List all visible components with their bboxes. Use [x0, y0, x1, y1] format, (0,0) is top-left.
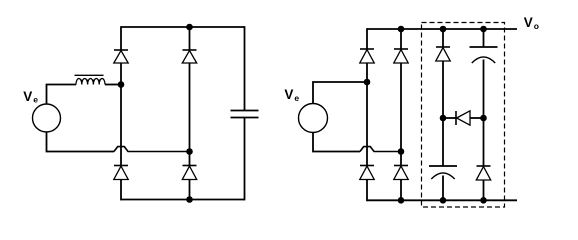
- wire: left top rail: [121, 26, 245, 28]
- diode D9 (box, top-left): [436, 47, 450, 61]
- svg-text:e: e: [294, 93, 299, 103]
- capacitor C3 (box, top-right, polarized): [470, 47, 498, 63]
- wire: middle diode right lead: [470, 117, 484, 119]
- diode D6 (right bridge, bottom-left): [360, 166, 374, 180]
- junction dot (top rail / branch 2): [398, 26, 405, 33]
- diode D4 (left bridge, bottom-right): [182, 166, 196, 180]
- capacitor C1: [231, 111, 259, 118]
- wire: branch 2 middle segment: [400, 63, 402, 166]
- svg-text:e: e: [33, 95, 38, 105]
- wire: source V1 top lead: [47, 85, 77, 105]
- inductor L1: [76, 78, 105, 84]
- wire: branch 2 upper segment: [400, 29, 402, 49]
- inductor L1 core line: [75, 74, 104, 76]
- junction dot (bottom rail / branch 4): [480, 197, 487, 204]
- diode D11 (box, middle, pointing left): [456, 111, 470, 125]
- diode D3 (left bridge, top-right): [182, 50, 196, 63]
- wire: branch B middle segment: [189, 63, 191, 166]
- wire: source V2 bottom lead: [313, 133, 360, 152]
- wire hop over branch 1: [360, 147, 401, 152]
- wire: branch 3 lower segment: [442, 176, 444, 201]
- wire: branch 3 middle segment: [442, 61, 444, 166]
- wire: source V2 top lead: [313, 82, 367, 104]
- junction dot (inductor / branch A): [118, 81, 125, 88]
- diode D5 (right bridge, top-left): [360, 49, 374, 63]
- junction dot (top rail / branch 4): [480, 26, 487, 33]
- wire: right branch upper (to capacitor): [244, 26, 246, 110]
- dashed box: [422, 23, 505, 208]
- junction dot (middle diode / branch 3): [440, 115, 447, 122]
- capacitor C2 (box, bottom-left, polarized): [429, 166, 457, 179]
- wire hop over branch A: [114, 147, 190, 152]
- junction dot (top rail / branch 3): [440, 26, 447, 33]
- svg-text:o: o: [534, 21, 539, 31]
- wire: middle diode left lead: [443, 117, 456, 119]
- wire: branch 1 lower segment: [366, 180, 368, 202]
- wire: branch 3 upper segment: [442, 29, 444, 47]
- wire: branch 4 middle segment: [483, 60, 485, 167]
- wire: left bottom rail: [121, 199, 245, 201]
- wire: branch 1 upper segment: [366, 28, 368, 49]
- wire: branch 2 lower segment: [400, 180, 402, 201]
- svg-text:V: V: [23, 89, 32, 104]
- wire: branch 4 upper segment: [483, 29, 485, 47]
- diode D2 (left bridge, bottom-left): [114, 166, 128, 180]
- junction dot (source return / branch B): [186, 148, 193, 155]
- diode D1 (left bridge, top-left): [114, 50, 128, 63]
- source V1 circle: [33, 104, 61, 132]
- junction dot (bottom rail / branch 2): [398, 197, 405, 204]
- inductor L1 winding legs: [82, 80, 99, 85]
- junction dot (bottom rail / branch B): [186, 196, 193, 203]
- wire: branch A upper segment: [120, 26, 122, 50]
- wire: right bottom rail: [367, 199, 517, 201]
- wire: branch 1 middle segment: [366, 63, 368, 166]
- junction dot (middle diode / branch 4): [480, 115, 487, 122]
- svg-text:V: V: [524, 15, 533, 30]
- junction dot (source top / branch 1): [364, 79, 371, 86]
- diode D8 (right bridge, bottom-right): [394, 166, 408, 180]
- diode D7 (right bridge, top-right): [394, 49, 408, 63]
- wire: branch B lower segment: [189, 180, 191, 200]
- wire: branch A middle segment: [120, 63, 122, 166]
- wire: right top rail: [367, 28, 517, 30]
- svg-text:V: V: [284, 87, 293, 102]
- source V2 circle: [299, 104, 328, 133]
- diode D10 (box, bottom-right): [476, 166, 490, 180]
- wire: branch A lower segment: [120, 180, 122, 201]
- junction dot (source return / branch 2): [398, 148, 405, 155]
- wire: branch B upper segment: [189, 27, 191, 50]
- wire: branch 4 lower segment: [483, 180, 485, 200]
- wire: right branch lower (from capacitor): [244, 118, 246, 201]
- junction dot (bottom rail / branch 3): [440, 197, 447, 204]
- junction dot (top rail / branch B): [186, 24, 193, 31]
- wire: inductor to branch A: [105, 84, 121, 86]
- wire: source V1 bottom lead: [47, 132, 115, 152]
